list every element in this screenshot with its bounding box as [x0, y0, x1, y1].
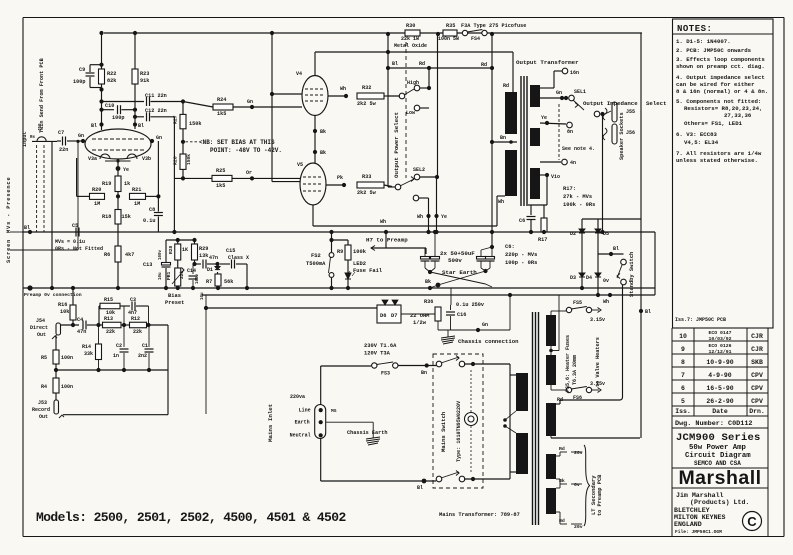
svg-text:Bn: Bn	[500, 135, 506, 141]
svg-text:16n: 16n	[570, 70, 579, 76]
svg-text:ENGLAND: ENGLAND	[674, 521, 702, 528]
svg-text:D1: D1	[207, 267, 213, 273]
svg-text:47n: 47n	[77, 329, 86, 335]
svg-text:C7: C7	[58, 130, 64, 136]
svg-text:10u: 10u	[159, 272, 163, 280]
svg-text:C16: C16	[457, 312, 466, 318]
svg-text:47n: 47n	[209, 255, 218, 261]
svg-text:ECO 0147: ECO 0147	[708, 330, 731, 336]
svg-text:100v: 100v	[196, 273, 200, 284]
svg-text:D3: D3	[570, 275, 576, 281]
svg-text:150k: 150k	[189, 121, 201, 127]
svg-text:See note 4.: See note 4.	[562, 146, 595, 152]
svg-text:R22: R22	[107, 71, 116, 77]
svg-text:26-2-90: 26-2-90	[706, 398, 733, 405]
svg-text:J54: J54	[36, 318, 45, 324]
svg-text:1K: 1K	[182, 247, 188, 253]
svg-text:C9: C9	[79, 67, 85, 73]
svg-text:150k: 150k	[186, 154, 192, 165]
svg-text:Class X: Class X	[228, 255, 249, 261]
svg-text:MILTON KEYNES: MILTON KEYNES	[674, 514, 725, 521]
svg-text:5. Components not fitted:: 5. Components not fitted:	[676, 98, 761, 105]
svg-text:T500mA: T500mA	[306, 261, 326, 267]
svg-text:Direct: Direct	[30, 325, 48, 331]
svg-text:D5: D5	[603, 231, 609, 237]
svg-text:4k7: 4k7	[125, 252, 134, 258]
svg-text:6: 6	[681, 385, 685, 392]
svg-text:R33: R33	[362, 174, 371, 180]
svg-text:Bn: Bn	[421, 370, 427, 376]
svg-text:J55: J55	[626, 109, 635, 115]
svg-text:Iss.: Iss.	[675, 408, 691, 415]
svg-text:C5: C5	[72, 223, 78, 229]
svg-text:91k: 91k	[140, 78, 149, 84]
svg-text:JCM900 Series: JCM900 Series	[676, 432, 761, 444]
svg-text:D4: D4	[586, 275, 592, 281]
svg-text:8n: 8n	[567, 129, 573, 135]
svg-text:R17: R17	[538, 237, 547, 243]
svg-text:High: High	[407, 80, 419, 86]
svg-text:22k: 22k	[133, 329, 142, 335]
svg-text:Bl: Bl	[392, 61, 398, 67]
svg-text:C11 22n: C11 22n	[145, 93, 167, 99]
svg-text:20v: 20v	[574, 524, 583, 530]
svg-text:Chassis Earth: Chassis Earth	[347, 430, 387, 436]
svg-text:Marshall: Marshall	[678, 467, 761, 489]
svg-text:Wh: Wh	[417, 214, 423, 220]
svg-text:R6: R6	[104, 252, 110, 258]
svg-text:Output Power Select: Output Power Select	[393, 112, 400, 178]
svg-text:16-5-90: 16-5-90	[706, 385, 733, 392]
svg-text:3. Effects loop components: 3. Effects loop components	[676, 56, 765, 63]
svg-text:Bl: Bl	[24, 225, 30, 231]
svg-text:R35: R35	[446, 23, 455, 29]
svg-text:100n: 100n	[61, 355, 73, 361]
svg-text:Wh: Wh	[340, 86, 346, 92]
svg-text:22k: 22k	[106, 329, 115, 335]
svg-text:Bias: Bias	[168, 293, 181, 299]
svg-text:10/03/92: 10/03/92	[708, 336, 731, 342]
svg-text:POINT: -48V TO -42V.: POINT: -48V TO -42V.	[210, 147, 282, 154]
svg-text:D2: D2	[570, 231, 576, 237]
svg-text:R9: R9	[337, 249, 343, 255]
svg-text:Models: 2500, 2501, 2502, 4500: Models: 2500, 2501, 2502, 4500, 4501 & 4…	[36, 510, 346, 525]
svg-text:V3a: V3a	[88, 156, 97, 162]
svg-text:120V T3A: 120V T3A	[364, 351, 391, 357]
svg-text:100n: 100n	[61, 384, 73, 390]
svg-text:Standby Switch: Standby Switch	[629, 252, 635, 297]
svg-text:R24: R24	[217, 97, 226, 103]
svg-text:100v: 100v	[159, 249, 163, 260]
svg-text:Chassis connection: Chassis connection	[458, 338, 519, 345]
svg-text:Select: Select	[646, 100, 666, 107]
svg-text:C15: C15	[226, 248, 235, 254]
svg-text:Twin Send From Front PCB: Twin Send From Front PCB	[39, 58, 45, 133]
svg-text:C6:: C6:	[505, 244, 515, 250]
svg-text:Or: Or	[246, 170, 252, 176]
svg-text:CPV: CPV	[751, 398, 763, 405]
svg-text:R20: R20	[92, 187, 101, 193]
svg-text:1M: 1M	[134, 201, 140, 207]
svg-text:100k: 100k	[353, 249, 367, 255]
svg-text:to Valve Heaters: to Valve Heaters	[595, 337, 601, 387]
svg-text:Iss.7: JMP50C PCB: Iss.7: JMP50C PCB	[675, 317, 726, 323]
svg-text:FS2: FS2	[311, 253, 321, 259]
svg-text:H7 to Preamp: H7 to Preamp	[366, 237, 408, 244]
svg-text:MVs - Presence: MVs - Presence	[6, 177, 12, 234]
svg-text:15k: 15k	[122, 214, 131, 220]
svg-text:Metal Oxide: Metal Oxide	[394, 43, 427, 49]
svg-text:V4: V4	[296, 71, 302, 77]
svg-text:ECO 0126: ECO 0126	[708, 343, 731, 349]
svg-text:R13: R13	[104, 316, 113, 322]
svg-text:50w Power Amp: 50w Power Amp	[689, 444, 747, 452]
svg-text:0.1u 250v: 0.1u 250v	[456, 302, 485, 308]
svg-text:Dwg. Number: C0D112: Dwg. Number: C0D112	[675, 420, 753, 428]
svg-text:Ye: Ye	[441, 214, 447, 220]
svg-text:Bl: Bl	[417, 485, 423, 491]
svg-text:Gn: Gn	[247, 99, 253, 105]
svg-text:C14: C14	[187, 268, 196, 274]
svg-text:82k: 82k	[107, 78, 116, 84]
svg-text:(Products) Ltd.: (Products) Ltd.	[690, 499, 749, 506]
svg-text:Mains Transformer: 789-87: Mains Transformer: 789-87	[439, 512, 520, 518]
svg-text:1k5: 1k5	[217, 111, 226, 117]
svg-text:Others= FS1, LED1: Others= FS1, LED1	[684, 120, 743, 127]
svg-text:Rd: Rd	[419, 61, 425, 67]
svg-text:Bl: Bl	[645, 309, 651, 315]
svg-text:FS4: FS4	[471, 36, 480, 42]
svg-text:C10: C10	[105, 103, 114, 109]
svg-text:to Preamp PCB: to Preamp PCB	[597, 474, 603, 516]
svg-text:Bk: Bk	[425, 279, 431, 285]
svg-text:Screen: Screen	[6, 239, 12, 263]
svg-text:Ye: Ye	[541, 115, 547, 121]
svg-text:R29: R29	[199, 246, 208, 252]
svg-text:56k: 56k	[224, 279, 233, 285]
svg-text:J53: J53	[38, 400, 47, 406]
svg-text:CJR: CJR	[751, 346, 763, 353]
svg-text:R27: R27	[173, 115, 179, 124]
svg-text:F3A Type 275 Picofuse: F3A Type 275 Picofuse	[461, 23, 526, 29]
svg-text:R14: R14	[82, 344, 91, 350]
svg-text:R18: R18	[102, 214, 111, 220]
svg-text:5: 5	[681, 398, 685, 405]
svg-text:4n: 4n	[570, 160, 576, 166]
svg-text:6. V3: ECC83: 6. V3: ECC83	[676, 131, 718, 138]
svg-text:Out: Out	[39, 414, 48, 420]
svg-text:Fuse Fail: Fuse Fail	[353, 268, 383, 274]
svg-text:NOTES:: NOTES:	[677, 24, 712, 34]
svg-text:V4,5: EL34: V4,5: EL34	[684, 139, 719, 146]
svg-text:27k - MVs: 27k - MVs	[563, 194, 592, 200]
svg-text:Wh: Wh	[603, 299, 609, 305]
svg-text:Out: Out	[37, 332, 46, 338]
svg-text:1/2w: 1/2w	[413, 320, 427, 326]
svg-text:Line: Line	[299, 408, 311, 414]
svg-text:500v: 500v	[448, 257, 462, 264]
svg-text:1k: 1k	[124, 181, 130, 187]
svg-text:Bl: Bl	[138, 123, 144, 129]
svg-text:Date: Date	[712, 408, 728, 415]
svg-text:C: C	[747, 514, 757, 529]
svg-text:R21: R21	[132, 187, 141, 193]
svg-text:Gn: Gn	[482, 322, 488, 328]
svg-text:Low: Low	[406, 110, 415, 116]
svg-text:4-9-90: 4-9-90	[708, 372, 732, 379]
svg-text:1M: 1M	[94, 201, 100, 207]
svg-text:LT Secondary: LT Secondary	[590, 475, 597, 515]
svg-text:SEL2: SEL2	[413, 167, 425, 173]
svg-text:J56: J56	[626, 130, 635, 136]
svg-text:Wh: Wh	[498, 199, 504, 205]
svg-text:Output Transformer: Output Transformer	[516, 59, 579, 66]
svg-text:220va: 220va	[290, 394, 305, 400]
svg-text:Rd: Rd	[503, 83, 509, 89]
svg-text:100k - 0Rs: 100k - 0Rs	[563, 202, 595, 208]
svg-text:Mains Switch: Mains Switch	[440, 411, 447, 452]
svg-text:<NB: SET BIAS AT THIS: <NB: SET BIAS AT THIS	[199, 139, 275, 146]
svg-text:13k: 13k	[199, 253, 208, 259]
svg-text:Resistors= R8,20,23,24,: Resistors= R8,20,23,24,	[684, 105, 763, 112]
svg-text:Gn: Gn	[556, 90, 562, 96]
svg-text:C6: C6	[519, 218, 525, 224]
svg-text:unless stated otherwise.: unless stated otherwise.	[676, 157, 758, 164]
svg-text:C12 22n: C12 22n	[145, 108, 167, 114]
svg-text:Preset: Preset	[165, 300, 184, 306]
svg-text:8: 8	[681, 359, 685, 366]
svg-text:C2: C2	[116, 343, 122, 349]
svg-text:R4: R4	[41, 384, 47, 390]
svg-text:1n: 1n	[113, 353, 119, 359]
svg-text:R7: R7	[206, 279, 212, 285]
svg-text:R5: R5	[41, 355, 47, 361]
svg-text:9: 9	[681, 346, 685, 353]
svg-text:V5: V5	[297, 162, 303, 168]
svg-text:27,33,36: 27,33,36	[724, 112, 752, 119]
svg-text:File: JMP50C1.OGM: File: JMP50C1.OGM	[675, 529, 722, 535]
svg-text:Rd: Rd	[481, 62, 487, 68]
svg-text:Rd: Rd	[559, 446, 565, 452]
svg-text:Wh: Wh	[380, 219, 386, 225]
svg-text:2n2: 2n2	[138, 353, 147, 359]
svg-text:10k: 10k	[60, 309, 69, 315]
svg-text:shown on preamp cct. diag.: shown on preamp cct. diag.	[676, 63, 765, 70]
svg-text:Bk: Bk	[320, 129, 326, 135]
svg-text:R25: R25	[216, 168, 225, 174]
svg-text:7. All resistors are 1/4w: 7. All resistors are 1/4w	[676, 150, 762, 157]
svg-text:Vio: Vio	[551, 174, 560, 180]
svg-text:R30: R30	[406, 23, 415, 29]
svg-text:4n7: 4n7	[128, 310, 137, 316]
svg-text:22k 1W: 22k 1W	[401, 36, 419, 42]
svg-text:22 OHM: 22 OHM	[410, 313, 429, 319]
svg-text:100p: 100p	[112, 115, 124, 121]
svg-text:R36: R36	[424, 299, 433, 305]
svg-text:can be wired for either: can be wired for either	[676, 81, 755, 88]
svg-text:R26: R26	[173, 156, 179, 165]
svg-text:20v: 20v	[574, 450, 583, 456]
svg-text:8 & 16n (normal) or 4 & 8n.: 8 & 16n (normal) or 4 & 8n.	[676, 88, 768, 95]
svg-text:Output Impedance: Output Impedance	[583, 100, 638, 107]
svg-text:CPV: CPV	[751, 385, 763, 392]
svg-text:0v: 0v	[603, 278, 609, 284]
svg-text:Input: Input	[22, 131, 28, 147]
svg-text:Bl: Bl	[91, 123, 97, 129]
svg-text:FS5: FS5	[573, 300, 582, 306]
svg-text:4. Output impedance select: 4. Output impedance select	[676, 74, 765, 81]
svg-text:Bl: Bl	[613, 246, 619, 252]
svg-text:33k: 33k	[84, 351, 93, 357]
svg-text:SEL1: SEL1	[574, 89, 586, 95]
svg-text:220p - MVs: 220p - MVs	[505, 252, 537, 258]
svg-text:2x 50+50uF: 2x 50+50uF	[440, 250, 475, 257]
svg-text:R23: R23	[140, 71, 149, 77]
svg-text:T6.3A 20mm: T6.3A 20mm	[572, 355, 578, 385]
svg-text:Speaker Sockets: Speaker Sockets	[619, 112, 625, 160]
svg-text:Pk: Pk	[337, 175, 343, 181]
svg-text:0.1u: 0.1u	[143, 218, 155, 224]
svg-text:100p: 100p	[73, 79, 85, 85]
svg-text:C1: C1	[142, 343, 148, 349]
svg-text:100n 5W: 100n 5W	[438, 36, 459, 42]
svg-text:MVs = 0.1u: MVs = 0.1u	[55, 239, 85, 245]
svg-text:2. PCB: JMP50C onwards: 2. PCB: JMP50C onwards	[676, 47, 752, 54]
svg-text:SEMCO AND CSA: SEMCO AND CSA	[694, 460, 741, 467]
svg-text:Ye: Ye	[123, 167, 129, 173]
svg-text:10u: 10u	[201, 292, 205, 300]
svg-text:Mains Inlet: Mains Inlet	[267, 404, 274, 442]
svg-text:1k5: 1k5	[216, 183, 225, 189]
svg-text:C13: C13	[143, 262, 152, 268]
svg-text:Bk: Bk	[559, 478, 565, 484]
svg-text:V3b: V3b	[142, 156, 151, 162]
svg-text:100p - 0Rs: 100p - 0Rs	[505, 260, 537, 266]
svg-text:2k2 5w: 2k2 5w	[357, 190, 377, 196]
svg-text:Type: 1610TN95W0220V: Type: 1610TN95W0220V	[456, 400, 462, 462]
svg-text:MS: MS	[331, 408, 337, 414]
svg-text:0Rs - Not Fitted: 0Rs - Not Fitted	[55, 246, 103, 252]
svg-text:FS6: FS6	[573, 395, 582, 401]
svg-text:R12: R12	[131, 316, 140, 322]
svg-text:Gn: Gn	[156, 135, 162, 141]
svg-text:1. D1-5: 1N4007.: 1. D1-5: 1N4007.	[676, 38, 731, 45]
svg-text:LED2: LED2	[353, 261, 366, 267]
svg-text:FS3: FS3	[381, 371, 390, 377]
svg-text:10-9-90: 10-9-90	[706, 359, 733, 366]
svg-text:D6: D6	[380, 313, 386, 319]
svg-text:CJR: CJR	[751, 333, 763, 340]
svg-text:Rd: Rd	[557, 397, 563, 403]
svg-text:CPV: CPV	[751, 372, 763, 379]
svg-text:D7: D7	[391, 313, 397, 319]
svg-text:0v: 0v	[574, 482, 580, 488]
svg-text:R16: R16	[58, 302, 67, 308]
svg-text:R19: R19	[102, 181, 111, 187]
svg-text:12/12/91: 12/12/91	[708, 349, 731, 355]
svg-text:22n: 22n	[59, 147, 68, 153]
svg-text:FS5,6: Heater Fuses: FS5,6: Heater Fuses	[565, 335, 571, 392]
svg-text:BLETCHLEY: BLETCHLEY	[674, 507, 710, 514]
svg-text:Earth: Earth	[295, 420, 310, 426]
svg-text:Neutral: Neutral	[290, 433, 311, 439]
svg-text:Drn.: Drn.	[749, 408, 765, 415]
svg-text:R32: R32	[362, 85, 371, 91]
svg-text:R15: R15	[104, 297, 113, 303]
svg-text:2k2 5w: 2k2 5w	[357, 101, 377, 107]
svg-text:R17:: R17:	[563, 186, 576, 192]
svg-text:10: 10	[679, 333, 687, 340]
svg-text:SKB: SKB	[751, 359, 763, 366]
svg-text:3.15v: 3.15v	[590, 317, 605, 323]
svg-text:Circuit Diagram: Circuit Diagram	[685, 452, 751, 460]
svg-text:PR1: PR1	[166, 271, 172, 280]
svg-text:Rs: Rs	[30, 136, 36, 140]
svg-text:Gn: Gn	[78, 133, 84, 139]
svg-text:10k: 10k	[106, 310, 115, 316]
svg-text:Rd: Rd	[559, 518, 565, 524]
svg-text:C4: C4	[77, 317, 83, 323]
svg-text:Jim Marshall: Jim Marshall	[676, 492, 724, 499]
svg-text:7: 7	[681, 372, 685, 379]
svg-text:C8: C8	[149, 207, 155, 213]
svg-text:C3: C3	[130, 297, 136, 303]
svg-text:Bk: Bk	[320, 150, 326, 156]
svg-text:230V T1.6A: 230V T1.6A	[364, 343, 397, 349]
svg-text:Record: Record	[32, 407, 50, 413]
svg-text:R28: R28	[168, 245, 174, 254]
